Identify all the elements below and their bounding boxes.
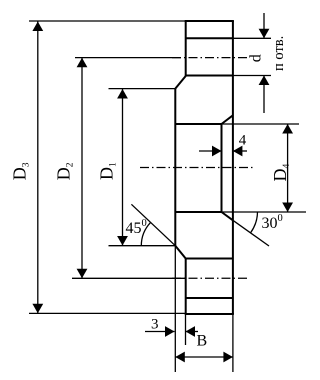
svg-text:d: d — [247, 54, 264, 62]
svg-text:4: 4 — [239, 133, 247, 149]
svg-text:3: 3 — [151, 317, 159, 333]
svg-text:п отв.: п отв. — [271, 36, 287, 71]
svg-text:B: B — [197, 333, 208, 350]
